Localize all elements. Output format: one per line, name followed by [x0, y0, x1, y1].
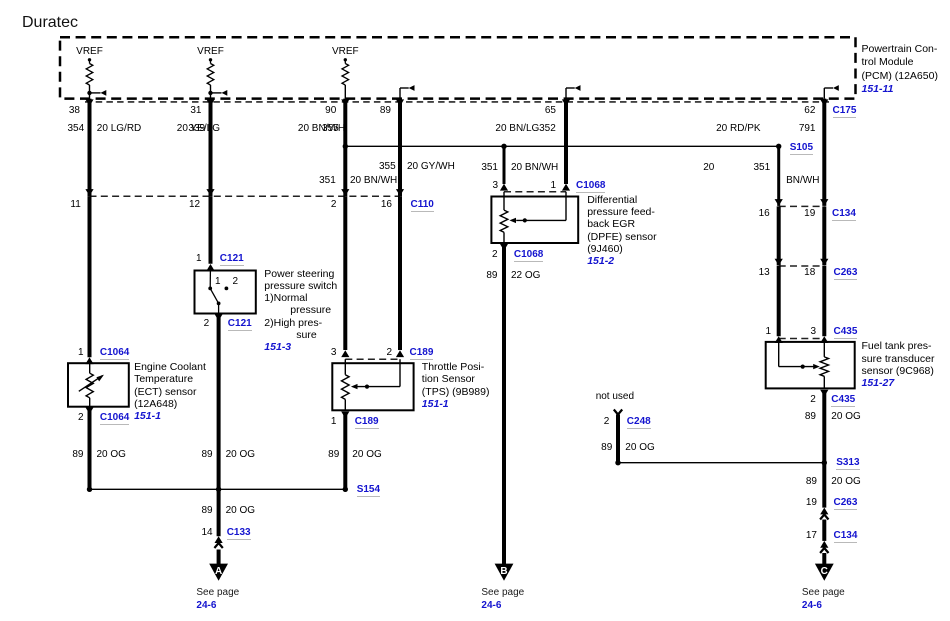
svg-text:A: A [215, 566, 222, 577]
svg-text:B: B [500, 566, 507, 577]
svg-text:C: C [821, 566, 828, 577]
